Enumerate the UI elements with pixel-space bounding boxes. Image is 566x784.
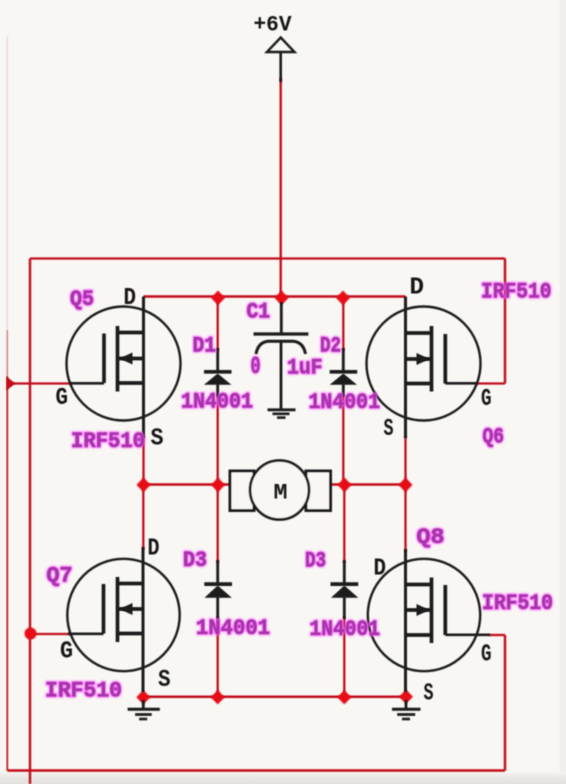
transistor Q6 body circle <box>367 307 481 421</box>
diode D2 upper lead black <box>342 348 345 371</box>
svg-text:G: G <box>481 386 492 413</box>
svg-text:M: M <box>274 481 288 506</box>
svg-text:S: S <box>151 426 164 453</box>
svg-text:G: G <box>56 385 69 412</box>
wire: Q5 gate horizontal red <box>13 382 72 384</box>
transistor Q7 body arrow <box>120 603 133 615</box>
diode D3 left triangle <box>205 586 232 598</box>
power symbol +6V triangle <box>267 38 295 53</box>
diode D1 upper lead black <box>216 348 219 371</box>
wire: right vertical lower (to Q8 gate) <box>504 635 506 771</box>
capacitor C1 top plate <box>254 332 309 335</box>
transistor Q7 gate lead black <box>68 632 104 635</box>
ground under Q7 stub <box>142 700 145 709</box>
transistor Q5 gate bar <box>102 334 106 384</box>
ground under Q8 source bar2 <box>397 713 415 716</box>
junction dot top rail C1 <box>275 291 289 306</box>
transistor Q5 body bar <box>118 357 144 361</box>
transistor Q6 body arrow <box>417 353 430 365</box>
magenta labels glow layer <box>45 280 553 704</box>
svg-text:D: D <box>410 275 425 302</box>
junction dot motor rail D2 D3 <box>338 478 352 493</box>
ground under Q7 source bar2 <box>135 713 152 716</box>
transistor Q7 channel bar <box>116 577 120 642</box>
svg-text:+6V: +6V <box>254 13 293 38</box>
svg-text:G: G <box>60 639 73 666</box>
transistor Q7 body bar <box>118 607 144 611</box>
transistor Q5 channel bar <box>116 326 120 392</box>
ground under Q8 source bar3 <box>402 718 410 721</box>
transistor Q5 source bar <box>118 381 144 385</box>
magenta labels core layer <box>45 280 553 704</box>
diode D3 left upper lead black <box>216 560 219 583</box>
junction dot top rail D1 <box>211 291 225 306</box>
capacitor C1 bottom lead <box>280 342 283 409</box>
motor M body circle <box>250 461 309 520</box>
transistor Q7 source bar <box>118 632 144 636</box>
ground under Q7 source bar3 <box>139 718 147 721</box>
wire: Q7 drain red segment <box>142 485 144 551</box>
junction dot bottom rail D3 right <box>337 690 351 704</box>
transistor Q6 body bar <box>406 357 432 361</box>
svg-text:S: S <box>158 667 171 694</box>
wire-end arrow into Q5 gate line <box>6 377 15 391</box>
power symbol stem black <box>279 52 282 82</box>
ground under Q8 source bar1 <box>392 708 421 711</box>
transistor Q8 gate bar <box>443 585 447 635</box>
transistor Q6 gate bar <box>443 334 447 384</box>
svg-text:D: D <box>148 536 160 563</box>
transistor Q8 drain bar <box>406 583 432 587</box>
wire: outer rect left vertical <box>29 259 31 784</box>
transistor Q8 body arrow <box>417 604 430 616</box>
transistor Q5 body circle <box>67 307 181 421</box>
diode D3 right triangle <box>331 586 358 598</box>
transistor Q6 main vertical (drain-source line) <box>404 297 407 439</box>
ground under C1 bar1 <box>268 408 296 411</box>
transistor Q7 body circle <box>67 559 179 671</box>
diode D3 right cathode bar <box>331 582 359 586</box>
wire: right vertical upper (to Q6 gate) <box>504 259 506 384</box>
capacitor C1 curved plate <box>256 341 306 354</box>
transistor Q7 main vertical (drain-source line) <box>142 547 145 692</box>
junction dot motor rail Q6 source <box>399 478 413 493</box>
transistor Q8 main vertical (drain-source line) <box>404 549 407 692</box>
junction dot motor rail D1 D3 <box>211 478 225 493</box>
wire: Q7 gate horizontal red <box>31 633 71 635</box>
junction dot bottom rail Q7 source <box>136 690 150 704</box>
wire: thin left vertical net (lower part) <box>6 376 8 771</box>
ground under C1 bar2 <box>273 412 290 415</box>
wire: D1 column red segments <box>217 297 219 485</box>
diode D3 right lower lead black <box>343 597 346 619</box>
transistor Q7 gate bar <box>102 584 106 634</box>
wire: Q6 gate horizontal red <box>476 382 505 384</box>
junction dot bottom rail D3 left <box>211 690 225 704</box>
junction dot motor rail Q5 source <box>137 478 151 493</box>
wire: motor rail horizontal <box>144 483 406 485</box>
svg-text:D: D <box>124 285 137 312</box>
transistor Q8 channel bar <box>430 578 434 644</box>
transistor Q8 gate lead black <box>445 633 490 636</box>
wire: D3 right column red segments <box>343 485 345 697</box>
capacitor C1 top lead <box>280 302 283 333</box>
svg-text:S: S <box>384 416 394 443</box>
wire: D2 column red segments <box>342 297 344 485</box>
diode D3 right upper lead black <box>343 560 346 583</box>
wire: outer rect top horizontal <box>30 257 505 259</box>
diode D1 cathode bar <box>204 370 232 374</box>
wire: Q5 source red segment <box>142 436 144 485</box>
transistor Q6 gate lead black <box>445 382 477 385</box>
diode D1 triangle <box>204 374 231 385</box>
junction dot top rail D2 <box>336 291 350 306</box>
transistor Q5 drain bar <box>118 331 144 335</box>
wire: Q6 source red segment <box>404 436 406 485</box>
wire: bottom source rail horizontal <box>143 696 406 699</box>
transistor Q8 body circle <box>368 559 480 671</box>
ground under Q8 stub <box>405 700 408 709</box>
wire: Q8 gate horizontal red <box>489 634 505 636</box>
svg-text:D: D <box>374 556 387 583</box>
transistor Q8 body bar <box>406 608 432 612</box>
diode D2 lower lead black <box>342 384 345 397</box>
transistor Q5 main vertical (drain-source line) <box>142 297 145 439</box>
junction dot Q7 gate tap <box>25 628 37 640</box>
motor M right terminal box <box>306 471 331 511</box>
wire: thin left vertical net (upper faint part) <box>6 36 8 330</box>
wire: +6V supply vertical <box>280 78 282 297</box>
transistor Q6 drain bar <box>406 331 432 335</box>
transistor Q8 source bar <box>406 633 432 637</box>
ground under C1 bar3 <box>277 416 286 419</box>
junction dot bottom rail Q8 source <box>399 690 413 704</box>
wire: D3 left column red segments <box>217 485 219 697</box>
diode D1 lower lead black <box>216 384 219 397</box>
wire: Q8 drain red segment <box>404 485 406 553</box>
ground under Q7 source bar1 <box>128 708 160 711</box>
transistor Q6 source bar <box>406 382 432 386</box>
transistor Q7 drain bar <box>118 582 144 586</box>
svg-text:S: S <box>424 681 434 708</box>
transistor Q5 body arrow <box>120 353 133 365</box>
motor M left terminal box <box>230 461 331 520</box>
transistor Q6 channel bar <box>430 326 434 392</box>
right edge subtle strip <box>560 0 566 784</box>
transistor Q5 gate lead black <box>70 382 104 385</box>
bottom gray band <box>0 0 1 1</box>
diode D3 left lower lead black <box>216 597 219 619</box>
diode D3 left cathode bar <box>204 582 232 586</box>
diode D2 triangle <box>330 374 357 385</box>
wire: top rail horizontal <box>144 295 406 297</box>
svg-text:G: G <box>481 642 492 669</box>
diode D2 cathode bar <box>330 370 358 374</box>
wire: bottom horizontal of gate net <box>7 769 505 771</box>
